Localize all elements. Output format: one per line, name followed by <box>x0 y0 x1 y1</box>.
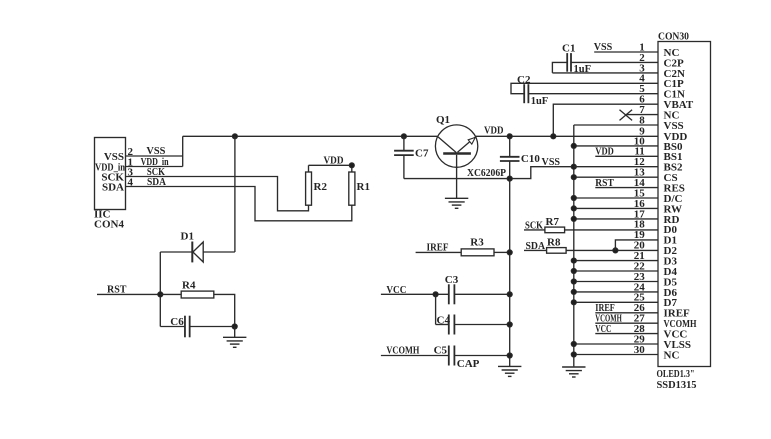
junction R1 top VDD <box>349 163 354 168</box>
junction bus pin 12 <box>571 164 576 169</box>
wire CON30 pin 14 <box>595 187 658 189</box>
svg-text:SSD1315: SSD1315 <box>657 380 697 391</box>
resistor R7 body <box>545 227 565 233</box>
wire C7 top stub <box>403 136 405 151</box>
wire CON30 pin 2 via C1 <box>552 62 567 73</box>
svg-text:C5: C5 <box>434 345 448 357</box>
wire CON30 pin 3 <box>552 72 658 74</box>
svg-text:R7: R7 <box>546 216 560 228</box>
capacitor C4 <box>448 315 450 335</box>
wire CON30 pin 21 <box>574 260 658 262</box>
svg-text:1uF: 1uF <box>531 96 549 107</box>
resistor R3 body <box>461 249 494 256</box>
junction rail/C7 <box>401 134 406 139</box>
ground (R4/C6) <box>223 336 246 338</box>
junction bus pin 30 <box>571 352 576 357</box>
wire CON30 pin 17 <box>574 218 658 220</box>
svg-text:C6: C6 <box>170 316 184 328</box>
svg-text:C3: C3 <box>445 274 459 286</box>
svg-text:C10: C10 <box>521 153 540 165</box>
wire D1 branch vertical <box>234 136 236 252</box>
svg-text:R1: R1 <box>357 181 370 193</box>
wire C4 to rail <box>454 324 509 326</box>
wire SDA stub <box>524 249 547 251</box>
junction bus pin 24 <box>571 289 576 294</box>
junction bus pin 15 <box>571 195 576 200</box>
wire CON30 pin 25 <box>574 301 658 303</box>
svg-text:C2: C2 <box>517 74 531 86</box>
resistor R2 body <box>306 172 312 205</box>
wire CON30 pin 28 <box>595 333 658 335</box>
wire VDD rail right segment <box>475 135 658 137</box>
wire CON4 pin2 VSS <box>126 155 183 157</box>
svg-text:R3: R3 <box>470 237 484 249</box>
junction rail/C5 <box>507 353 512 358</box>
junction rail/C10/pin9 <box>507 134 512 139</box>
junction RST node <box>158 292 163 297</box>
wire VDD rail left segment <box>183 135 438 137</box>
wire VSS mid rail vertical <box>509 179 511 367</box>
svg-text:R4: R4 <box>182 279 196 291</box>
wire C4 left <box>436 324 450 326</box>
transistor Q1 (XC6206P regulator) <box>435 125 477 167</box>
wire CON30 pin 26 <box>595 312 658 314</box>
resistor R4 body <box>181 291 214 298</box>
wire SCK stub <box>524 229 545 231</box>
capacitor C1 <box>566 53 568 72</box>
wire CON30 pin 5 <box>528 93 658 95</box>
wire CON4 pin1 VDD_in <box>126 166 183 168</box>
wire CON30 pin 15 <box>574 197 658 199</box>
wire C6 left <box>160 326 185 328</box>
capacitor C5 <box>448 346 450 366</box>
junction bus pin 23 <box>571 279 576 284</box>
junction VCC/C3/C4 branch <box>433 292 438 297</box>
junction rail/VBAT <box>551 134 556 139</box>
wire ground stub <box>234 327 236 338</box>
wire C5 to rail <box>454 355 509 357</box>
junction bus pin 29 <box>571 341 576 346</box>
wire C3 to rail <box>454 293 509 295</box>
wire CON30 pin 27 <box>595 322 658 324</box>
wire CON30 pin 23 <box>574 281 658 283</box>
wire C4 branch vertical <box>435 294 437 324</box>
diode D1 <box>193 242 203 262</box>
wire CON4 pin4 SDA to R1 <box>126 187 352 221</box>
junction bus pin 21 <box>571 258 576 263</box>
ground (mid rail) <box>498 365 521 367</box>
wire R3 to rail <box>494 251 510 253</box>
junction R4/C6 ground node <box>232 324 237 329</box>
wire CON30 pin 4 via C2 corner <box>511 83 658 93</box>
svg-text:VCOMH: VCOMH <box>386 345 419 357</box>
ground (Q1) <box>445 197 468 199</box>
wire C7 bottom stub <box>403 155 405 179</box>
wire CON30 pin 2 right <box>571 61 658 63</box>
junction bottom rail/C10 <box>507 176 512 181</box>
junction bus pin 17 <box>571 216 576 221</box>
svg-text:VSS: VSS <box>542 156 561 168</box>
wire D1 anode <box>203 251 235 253</box>
wire R4 to ground corner <box>214 294 235 326</box>
wire RST to R4 <box>160 293 181 295</box>
wire VCOMH stub <box>381 355 450 357</box>
wire R7 to pin18 D0 <box>565 229 658 231</box>
wire C10 top stub <box>509 136 511 157</box>
capacitor C7 <box>394 150 414 152</box>
wire R1 top stub <box>351 165 353 172</box>
svg-text:CON30: CON30 <box>658 30 689 42</box>
wire VDD tie R2-R1 <box>309 164 352 166</box>
svg-text:VDD: VDD <box>324 154 344 166</box>
svg-text:VDD: VDD <box>484 125 504 137</box>
capacitor C10 <box>500 156 520 158</box>
capacitor C2 <box>523 84 525 103</box>
wire CON30 pin 6 VBAT <box>553 104 658 136</box>
junction R8/D1-D2 tie <box>613 248 618 253</box>
svg-text:VSS: VSS <box>664 120 684 132</box>
wire CON30 pin 22 <box>574 270 658 272</box>
wire D1 cathode <box>160 251 192 253</box>
junction rail/C4 <box>507 322 512 327</box>
wire R2 top stub <box>308 165 310 172</box>
wire RST stub <box>97 293 160 295</box>
connector CON30 body <box>658 42 711 367</box>
wire VDD_in riser to rail <box>182 136 184 166</box>
svg-text:C7: C7 <box>415 148 429 160</box>
wire IREF stub <box>416 251 462 253</box>
wire regulator bottom rail <box>404 167 574 179</box>
wire CON30 pin 12 right <box>574 166 658 168</box>
svg-text:R2: R2 <box>314 181 328 193</box>
svg-text:R8: R8 <box>547 237 561 249</box>
wire CON30 pin 10 <box>574 145 658 147</box>
svg-text:XC6206P: XC6206P <box>467 167 506 179</box>
wire CON30 pin 13 <box>574 176 658 178</box>
svg-text:OLED1.3": OLED1.3" <box>657 369 695 380</box>
wire Q1 ground lead <box>456 155 458 199</box>
ground (VSS bus) <box>562 366 585 368</box>
wire VCC stub <box>381 293 448 295</box>
capacitor C3 <box>448 284 450 304</box>
resistor R1 body <box>349 172 355 205</box>
resistor R8 body <box>547 248 567 254</box>
junction bus pin 10 <box>571 143 576 148</box>
wire CON30 pin 11 <box>595 155 658 157</box>
wire CON30 pin 24 <box>574 291 658 293</box>
wire C10 bottom stub <box>509 161 511 179</box>
junction VDD_in/D1 <box>232 134 237 139</box>
junction bus pin 16 <box>571 206 576 211</box>
wire CON30 pin 7 <box>626 114 658 116</box>
wire CON4 pin3 SCK to R2 <box>126 177 309 211</box>
wire CON30 pin 16 <box>574 207 658 209</box>
connector CON4 body <box>95 138 126 210</box>
junction bus pin 25 <box>571 300 576 305</box>
no-connect X (pin 7) <box>620 110 633 121</box>
wire CON30 pin 8 VSS <box>574 124 658 126</box>
svg-text:C4: C4 <box>437 314 451 326</box>
svg-text:SDA: SDA <box>102 181 124 193</box>
junction bus pin 13 <box>571 175 576 180</box>
wire RST branch vertical <box>159 252 161 327</box>
svg-text:D1: D1 <box>181 231 194 243</box>
junction rail/C3 <box>507 292 512 297</box>
wire jog to pin19 D1 <box>615 240 658 251</box>
svg-text:CON4: CON4 <box>94 219 124 231</box>
svg-text:CAP: CAP <box>457 358 480 370</box>
capacitor C6 <box>184 316 186 338</box>
wire VSS bus vertical <box>573 125 575 366</box>
wire C6 right <box>190 326 235 328</box>
svg-text:Q1: Q1 <box>436 114 450 126</box>
junction rail/R3 <box>507 250 512 255</box>
wire R8 to pin20 D2 <box>566 249 658 251</box>
wire CON30 pin 29 <box>574 343 658 345</box>
junction bus pin 22 <box>571 268 576 273</box>
svg-text:C1: C1 <box>562 42 575 54</box>
wire CON30 pin 1 <box>594 51 658 53</box>
wire CON30 pin 30 <box>574 354 658 356</box>
svg-text:NC: NC <box>664 349 680 361</box>
